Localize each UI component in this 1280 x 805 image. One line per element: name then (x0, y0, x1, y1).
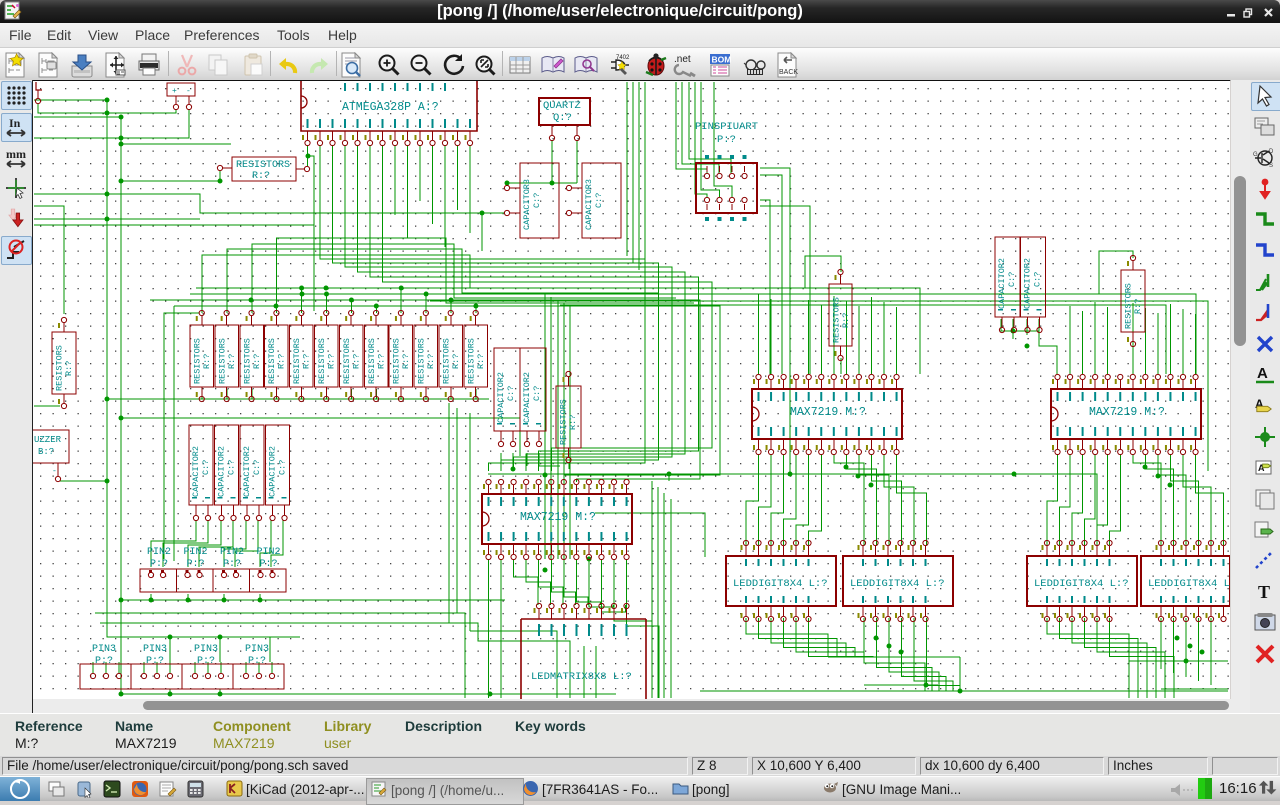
svg-text:PIN3: PIN3 (92, 644, 116, 655)
wire (307, 145, 309, 166)
wire (770, 299, 772, 374)
junction (1175, 636, 1180, 641)
wire (714, 82, 732, 197)
wire (269, 637, 271, 662)
resistor R:? RESISTORS array #1 (190, 325, 214, 387)
wire (34, 206, 64, 314)
svg-text:C:?: C:? (201, 460, 211, 475)
wire (469, 413, 471, 631)
svg-text:LEDDIGIT8X4 L:?: LEDDIGIT8X4 L:? (850, 578, 945, 590)
svg-text:CAPACITOR2: CAPACITOR2 (191, 446, 201, 497)
svg-text:ATMEGA328P A:?: ATMEGA328P A:? (342, 101, 439, 114)
wire (1094, 302, 1096, 374)
svg-text:MAX7219 M:?: MAX7219 M:? (520, 511, 596, 524)
svg-text:RESISTORS: RESISTORS (267, 338, 277, 384)
wire (576, 140, 578, 183)
junction (874, 636, 879, 641)
wire (834, 454, 864, 545)
wire (34, 405, 60, 407)
junction (924, 683, 929, 688)
svg-text:QUARTZ: QUARTZ (543, 100, 581, 112)
wire (202, 255, 640, 313)
svg-text:RESISTORS: RESISTORS (55, 345, 65, 391)
wire (475, 306, 477, 313)
wire (809, 618, 874, 657)
wire (350, 389, 352, 399)
svg-text:R:?: R:? (426, 354, 436, 369)
svg-text:R:?: R:? (351, 354, 361, 369)
wire (34, 194, 505, 213)
wire (224, 520, 246, 567)
wire (260, 520, 271, 567)
svg-text:BOM: BOM (712, 55, 732, 65)
junction (306, 154, 311, 159)
wire (358, 145, 686, 471)
junction (1012, 472, 1017, 477)
wire (1144, 308, 1146, 374)
junction (488, 692, 493, 697)
wire (252, 244, 676, 313)
svg-text:R:?: R:? (227, 354, 237, 369)
svg-text:PIN3: PIN3 (194, 644, 218, 655)
wire (833, 296, 835, 374)
resistor R:? RESISTORS array #3 (240, 325, 263, 387)
svg-text:BACK: BACK (779, 69, 798, 76)
wire (1099, 251, 1133, 294)
wire (419, 145, 421, 201)
wire (526, 453, 528, 466)
svg-text:LEDDIGIT8X4 L:?: LEDDIGIT8X4 L:? (1034, 578, 1129, 590)
wire (1195, 314, 1197, 374)
wire (34, 116, 121, 118)
display L:? LEDDIGIT8X4 #2 (843, 556, 953, 606)
junction (218, 692, 223, 697)
wire (276, 389, 278, 399)
wire (1107, 307, 1109, 374)
wire (121, 418, 520, 456)
junction (587, 557, 592, 562)
wire (100, 623, 510, 641)
junction (119, 692, 124, 697)
wire (1196, 454, 1224, 545)
wire (478, 641, 570, 651)
svg-text:RESISTORS: RESISTORS (193, 338, 203, 384)
wire (883, 302, 885, 374)
wire (746, 454, 759, 545)
svg-text:RESISTORS: RESISTORS (832, 297, 842, 343)
junction (186, 598, 191, 603)
capacitor C:? CAPACITOR2 (PIN2 group) #1 (189, 425, 213, 505)
wire (326, 389, 328, 399)
IC M:? MAX7219 #1 (center) (482, 494, 632, 544)
wire (1047, 618, 1129, 698)
svg-text:LEDDIGIT8X4 L:?: LEDDIGIT8X4 L:? (733, 578, 828, 590)
junction (218, 179, 223, 184)
resistor R:? RESISTORS array #2 (215, 325, 239, 387)
wire (877, 618, 933, 691)
wire (1072, 618, 1147, 698)
wire (258, 662, 260, 673)
wire (194, 662, 196, 673)
wire (430, 301, 1208, 471)
svg-text:R:?: R:? (841, 313, 851, 328)
svg-text:C:?: C:? (1007, 272, 1017, 287)
wire (601, 559, 625, 612)
junction (105, 397, 110, 402)
resistor R:? RESISTORS array #5 (290, 325, 314, 387)
svg-text:CAPACITOR2: CAPACITOR2 (997, 258, 1007, 309)
wire (1110, 618, 1175, 698)
wire (500, 559, 502, 698)
svg-text:P:?: P:? (248, 656, 266, 667)
svg-text:MAX7219 M:?: MAX7219 M:? (1089, 406, 1165, 419)
resistor R:? RESISTORS array #4 (265, 325, 289, 387)
wire (187, 594, 189, 600)
svg-text:R:?: R:? (277, 354, 287, 369)
wire (539, 453, 560, 466)
wire (1110, 454, 1121, 545)
wire (121, 143, 231, 145)
junction (543, 473, 548, 478)
junction (119, 179, 124, 184)
wire (350, 300, 352, 313)
svg-text:R:?: R:? (252, 171, 270, 182)
wire (425, 389, 427, 399)
junction (844, 465, 849, 470)
wire (400, 389, 402, 399)
wire (121, 693, 616, 695)
wire (959, 657, 961, 691)
svg-text:PIN2: PIN2 (147, 547, 171, 558)
svg-text:P:?: P:? (150, 559, 168, 570)
wire (1161, 688, 1228, 690)
wire (271, 662, 273, 673)
junction (399, 286, 404, 291)
junction (168, 635, 173, 640)
capacitor C:? CAPACITOR3 #2 (582, 163, 621, 238)
wire (169, 637, 171, 662)
wire (219, 637, 221, 662)
MCU U1 ATMEGA328P A:? (301, 81, 477, 131)
junction (424, 292, 429, 297)
wire (488, 474, 1097, 541)
junction (300, 292, 305, 297)
wire (1085, 454, 1096, 545)
wire (1170, 454, 1198, 545)
wire (746, 618, 828, 657)
resistor R:? RESISTORS array #8 (364, 325, 388, 387)
wire (589, 559, 613, 607)
wire (871, 454, 901, 545)
wire (120, 117, 122, 694)
wire (1039, 319, 1057, 374)
wire (201, 389, 203, 399)
junction (1168, 483, 1173, 488)
wire (151, 520, 196, 567)
junction (105, 111, 110, 116)
wire (383, 145, 713, 471)
junction (168, 692, 173, 697)
svg-text:.net: .net (674, 54, 691, 65)
wire (60, 480, 107, 482)
svg-text:P:?: P:? (717, 134, 736, 146)
wire (394, 145, 396, 215)
wire (34, 224, 314, 226)
wire (150, 300, 700, 482)
resistor R:? RESISTORS (x556 vertical) (556, 386, 581, 448)
wire (118, 662, 120, 673)
wire (501, 453, 540, 463)
svg-text:CAPACITOR2: CAPACITOR2 (242, 446, 252, 497)
wire (563, 303, 565, 559)
wire (568, 463, 570, 469)
svg-text:RESISTORS: RESISTORS (1124, 283, 1134, 329)
wire (207, 662, 209, 673)
junction (1025, 344, 1030, 349)
junction (105, 479, 110, 484)
svg-text:RESISTORS: RESISTORS (217, 338, 227, 384)
svg-text:R:?: R:? (568, 415, 578, 430)
junction (119, 598, 124, 603)
wire (326, 294, 328, 313)
display L:? LEDDIGIT8X4 #4 (clipped) (1141, 556, 1230, 606)
resistor R:? RESISTORS array #11 (439, 325, 463, 387)
svg-text:CAPACITOR2: CAPACITOR2 (522, 372, 532, 423)
display L:? LEDDIGIT8X4 #1 (726, 556, 836, 606)
wire (1097, 454, 1108, 545)
svg-text:+: + (172, 87, 177, 96)
junction (899, 650, 904, 655)
junction (324, 292, 329, 297)
junction (105, 192, 110, 197)
wire (488, 559, 490, 698)
svg-text:C:?: C:? (252, 460, 262, 475)
junction (149, 598, 154, 603)
wire (1129, 660, 1228, 662)
wire (345, 145, 672, 471)
wire (1132, 345, 1134, 374)
wire (526, 559, 550, 605)
wire (689, 82, 731, 173)
junction (1143, 465, 1148, 470)
wire (758, 294, 760, 374)
wire (828, 656, 960, 658)
wire (864, 684, 938, 686)
wire (1133, 454, 1161, 545)
resistor R:? RESISTORS (mid-right vertical) (829, 284, 852, 346)
svg-text:Q:?: Q:? (553, 112, 572, 124)
wire (407, 145, 409, 238)
wire (809, 454, 822, 545)
wire (450, 389, 452, 399)
svg-text:R:?: R:? (64, 361, 74, 376)
svg-text:RESISTORS: RESISTORS (417, 338, 427, 384)
svg-text:R:?: R:? (451, 354, 461, 369)
wire (870, 297, 872, 374)
wire (375, 389, 377, 399)
wire (174, 306, 720, 482)
wire (551, 140, 553, 183)
wire (808, 300, 810, 374)
wire (271, 520, 283, 567)
svg-text:RESISTORS: RESISTORS (292, 338, 302, 384)
wire (92, 662, 94, 673)
wire (902, 618, 947, 691)
wire (668, 474, 670, 481)
wire (1158, 454, 1186, 545)
wire (1060, 618, 1139, 698)
wire (1047, 454, 1058, 545)
resistor R:? RESISTORS array #10 (414, 325, 438, 387)
resistor R:? RESISTORS array #9 (389, 325, 413, 387)
capacitor C:? CAPACITOR2 (PIN2 group) #4 (266, 425, 290, 505)
wire (805, 256, 841, 288)
wire (663, 493, 665, 698)
wire (1001, 319, 1039, 331)
wire (1169, 304, 1171, 374)
wire (884, 454, 914, 545)
wire (564, 559, 588, 605)
svg-text:P:?: P:? (146, 656, 164, 667)
wire (219, 689, 221, 694)
wire (105, 662, 107, 673)
wire (858, 306, 860, 374)
svg-text:PIN2: PIN2 (184, 547, 208, 558)
wire (308, 156, 314, 311)
wire (456, 408, 458, 613)
svg-text:CAPACITOR2: CAPACITOR2 (217, 446, 227, 497)
wire (34, 218, 200, 220)
svg-text:R:?: R:? (401, 354, 411, 369)
junction (856, 474, 861, 479)
svg-text:RESISTORS: RESISTORS (236, 160, 290, 171)
wire (556, 646, 558, 698)
wire (927, 618, 961, 691)
wire (245, 662, 247, 673)
wire (163, 520, 208, 567)
junction (324, 286, 329, 291)
junction (374, 304, 379, 309)
wire (143, 662, 145, 673)
wire (576, 559, 600, 605)
wire (700, 690, 1228, 692)
resistor R:? RESISTORS array #12 (464, 325, 488, 387)
svg-text:R:?: R:? (252, 354, 262, 369)
IC M:? MAX7219 #3 (far right) (1051, 389, 1201, 439)
wire (695, 82, 707, 197)
junction (349, 298, 354, 303)
capacitor C:? CAPACITOR2 (mid pair) #1 (494, 348, 520, 431)
wire (457, 145, 459, 210)
wire (1097, 618, 1165, 698)
svg-text:P:?: P:? (223, 559, 241, 570)
svg-text:P:?: P:? (187, 559, 205, 570)
svg-text:P:?: P:? (260, 559, 278, 570)
svg-text:PIN2: PIN2 (220, 547, 244, 558)
svg-text:B:?: B:? (38, 447, 54, 457)
svg-text:P:?: P:? (95, 656, 113, 667)
junction (473, 304, 478, 309)
wire (760, 175, 782, 374)
svg-text:G: G (1253, 152, 1258, 158)
wire (320, 145, 645, 471)
junction (480, 211, 485, 216)
wire (121, 171, 220, 181)
wire (506, 183, 508, 186)
junction (1184, 659, 1189, 664)
svg-text:C:?: C:? (532, 193, 542, 208)
capacitor C:? CAPACITOR2 (top-right pair) #1 (995, 237, 1020, 317)
wire (1012, 319, 1014, 339)
wire (150, 594, 152, 600)
junction (869, 483, 874, 488)
wire (1072, 454, 1083, 545)
wire (539, 559, 563, 605)
wire (95, 613, 465, 698)
wire (759, 618, 838, 657)
wire (644, 82, 646, 277)
wire (164, 313, 199, 559)
svg-text:UZZER: UZZER (34, 435, 62, 445)
svg-text:C:?: C:? (506, 386, 516, 401)
svg-text:MAX7219 M:?: MAX7219 M:? (790, 406, 866, 419)
wire (1082, 311, 1084, 374)
wire (670, 499, 672, 698)
svg-text:RESISTORS: RESISTORS (367, 338, 377, 384)
svg-text:CAPACITOR2: CAPACITOR2 (496, 372, 506, 423)
svg-text:A: A (1257, 365, 1268, 382)
wire (1198, 618, 1200, 681)
wire (370, 145, 699, 471)
wire (512, 453, 514, 469)
wire (1157, 313, 1159, 374)
junction (218, 635, 223, 640)
svg-text:C:?: C:? (278, 460, 288, 475)
wire (657, 487, 659, 698)
svg-text:RESISTORS: RESISTORS (342, 338, 352, 384)
wire (771, 454, 784, 545)
wire (173, 306, 175, 561)
wire (1085, 618, 1157, 698)
wire (914, 618, 953, 691)
junction (258, 598, 263, 603)
wire (676, 82, 707, 173)
wire (896, 307, 898, 374)
wire (107, 600, 300, 637)
svg-text:PIN3: PIN3 (143, 644, 167, 655)
junction (449, 298, 454, 303)
junction (550, 181, 555, 186)
wire (595, 513, 705, 557)
wire (760, 168, 790, 474)
junction (505, 181, 510, 186)
wire (432, 145, 434, 224)
wire (784, 454, 797, 545)
wire (1160, 618, 1162, 669)
junction (119, 142, 124, 147)
wire (864, 618, 925, 691)
svg-text:mm: mm (6, 147, 26, 161)
svg-text:R:?: R:? (302, 354, 312, 369)
wire (1185, 618, 1187, 677)
svg-text:RESISTORS: RESISTORS (559, 399, 569, 445)
wire (199, 520, 233, 567)
wire (1069, 306, 1071, 374)
wire (550, 297, 552, 559)
wire (560, 305, 1166, 374)
wire (759, 454, 772, 545)
wire (400, 288, 402, 313)
